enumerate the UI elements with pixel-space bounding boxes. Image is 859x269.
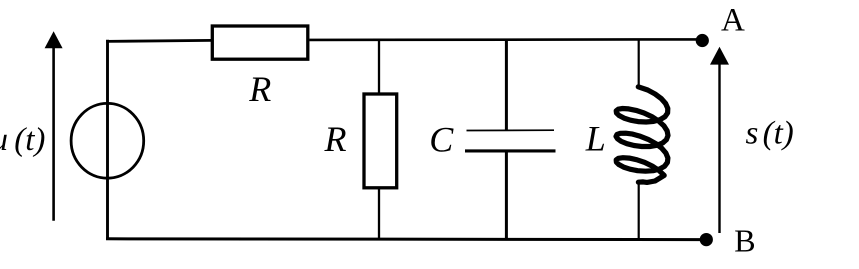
wire C-branch bottom stub bbox=[505, 151, 508, 239]
wire L-branch bottom stub bbox=[638, 182, 640, 238]
voltage source bbox=[71, 103, 144, 178]
node A terminal dot bbox=[696, 34, 709, 47]
svg-text:A: A bbox=[721, 3, 745, 39]
u(t) source arrow bbox=[45, 31, 63, 221]
svg-text:C: C bbox=[429, 119, 454, 159]
s(t) output arrow bbox=[710, 47, 729, 233]
wire L-branch top stub bbox=[638, 40, 640, 89]
wire top-left segment bbox=[106, 40, 212, 41]
resistor R series bbox=[212, 26, 307, 59]
capacitor C bbox=[465, 130, 556, 151]
svg-text:B: B bbox=[734, 222, 755, 258]
svg-text:R: R bbox=[248, 69, 271, 109]
wire R-branch bottom stub bbox=[378, 188, 380, 239]
wire R-branch top stub bbox=[378, 40, 380, 94]
svg-text:s (t): s (t) bbox=[746, 115, 794, 151]
resistor R shunt bbox=[364, 94, 397, 188]
inductor L bbox=[616, 87, 668, 183]
node B terminal dot bbox=[700, 233, 713, 246]
svg-text:L: L bbox=[585, 118, 606, 158]
wire top-right segment bbox=[310, 38, 698, 41]
wire bottom bbox=[106, 237, 701, 241]
wire left vertical bbox=[106, 40, 109, 240]
wire C-branch top stub bbox=[505, 40, 508, 131]
svg-text:R: R bbox=[324, 119, 347, 159]
svg-text:u (t): u (t) bbox=[0, 122, 45, 158]
